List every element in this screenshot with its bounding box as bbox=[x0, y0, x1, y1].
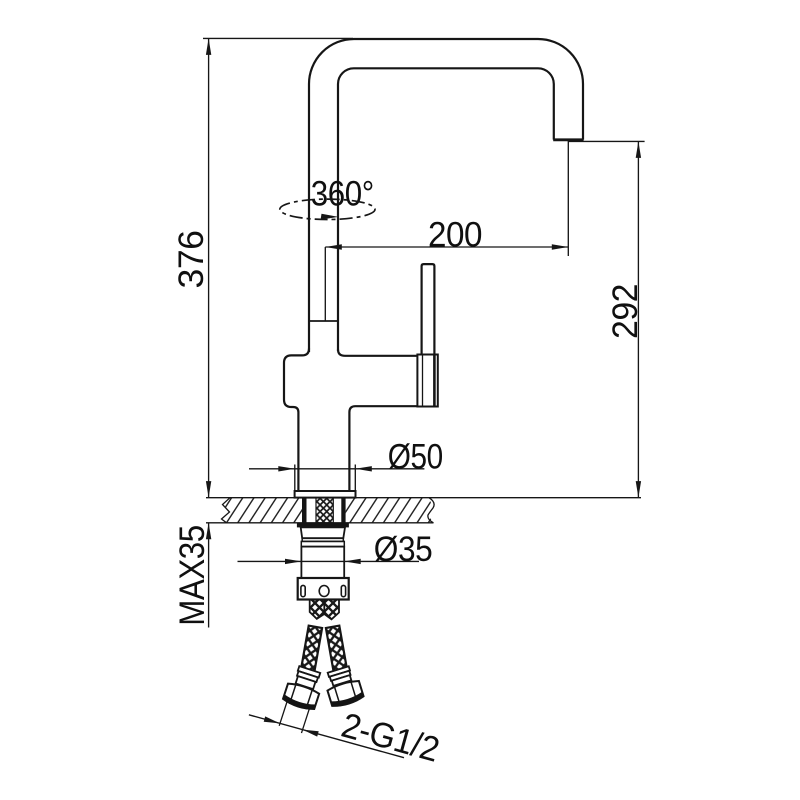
dimension 376 arrow down bbox=[206, 481, 211, 498]
right hose fitting bbox=[323, 665, 365, 709]
body bottom edge right bbox=[349, 406, 417, 491]
countertop left break edge bbox=[222, 498, 231, 523]
dimension 2-G1/2 arrow 1 bbox=[264, 716, 280, 723]
rotation ellipse dashed bbox=[280, 199, 375, 219]
left hose fitting bbox=[275, 664, 326, 734]
dimension D50 arrow right pointing left bbox=[355, 466, 372, 471]
svg-text:2-G1/2: 2-G1/2 bbox=[337, 706, 443, 770]
handle base inner bold line bbox=[433, 355, 436, 407]
right hose bbox=[326, 626, 347, 671]
countertop bottom line bbox=[206, 522, 434, 524]
countertop hatched section left bbox=[222, 498, 303, 523]
shank ring 2 bbox=[301, 541, 344, 546]
hose bundle below nut bbox=[310, 600, 339, 620]
left hose bbox=[301, 626, 322, 671]
nut center hole bbox=[319, 586, 329, 597]
svg-text:376: 376 bbox=[172, 231, 211, 289]
dimension 200 arrow left bbox=[325, 244, 342, 249]
dimension 376 line bbox=[208, 38, 210, 497]
dimension 200 arrow right bbox=[552, 244, 569, 249]
nut right slot bbox=[341, 585, 345, 596]
countertop top line bbox=[206, 497, 641, 499]
dimension 292 line bbox=[637, 141, 639, 497]
dimension MAX35 arrow up bbox=[206, 523, 211, 540]
rubber washer under counter bbox=[297, 523, 349, 528]
body top edge right bbox=[338, 350, 417, 356]
dimension D35 line bbox=[238, 560, 420, 562]
handle base block bbox=[417, 355, 437, 407]
mounting nut block bbox=[298, 578, 349, 600]
rotation arrow on ellipse bbox=[321, 214, 339, 220]
handle base inner thin line bbox=[422, 355, 424, 407]
svg-text:292: 292 bbox=[606, 284, 645, 339]
counter hole right bold edge bbox=[341, 498, 345, 523]
counter hole left bold edge bbox=[302, 498, 307, 523]
hose bundle center line bbox=[323, 600, 325, 616]
dimension 292 extension top bbox=[568, 140, 645, 142]
svg-text:Ø50: Ø50 bbox=[388, 437, 443, 476]
shank taper segment bbox=[301, 527, 345, 538]
dimension D35 arrow left pointing right bbox=[285, 559, 302, 564]
dimension 376 arrow up bbox=[206, 38, 211, 55]
spout inner contour bbox=[338, 68, 554, 351]
dimension D35 arrow right pointing left bbox=[344, 559, 361, 564]
G1/2 stub extension lines bbox=[279, 700, 310, 733]
svg-text:MAX35: MAX35 bbox=[173, 525, 212, 626]
dimension 2-G1/2 arrow 2 bbox=[303, 730, 319, 737]
countertop hatched section right bbox=[346, 498, 434, 523]
dimension D50 extension left bbox=[294, 465, 296, 491]
handle lever bbox=[422, 264, 435, 355]
dimension 200 extension left bbox=[324, 247, 326, 321]
dimension 292 arrow down bbox=[636, 481, 641, 498]
spout outer contour bbox=[309, 39, 583, 352]
body left contour bbox=[284, 349, 309, 492]
countertop right break edge bbox=[428, 498, 434, 523]
dimension 200 line bbox=[325, 246, 568, 248]
svg-text:360°: 360° bbox=[311, 175, 374, 214]
dimension D50 extension right bbox=[354, 465, 356, 491]
spout swivel joint line bbox=[309, 320, 338, 322]
shank ring 1 bbox=[302, 538, 343, 541]
svg-text:200: 200 bbox=[428, 216, 482, 255]
dimension D50 arrow left pointing right bbox=[278, 466, 295, 471]
dimension 200 extension right bbox=[567, 141, 569, 257]
dimension MAX35 line bbox=[208, 523, 210, 628]
dimension 292 arrow up bbox=[636, 141, 641, 158]
dimension D50 line bbox=[249, 468, 424, 470]
svg-text:Ø35: Ø35 bbox=[374, 530, 433, 569]
dimension 376 extension line top bbox=[203, 37, 353, 39]
spout tip face bbox=[553, 138, 583, 141]
mounting flange bbox=[295, 491, 356, 498]
shank cylinder bbox=[301, 547, 344, 578]
threaded shank braid in hole bbox=[316, 498, 333, 523]
dimension 2-G1/2 leader line bbox=[249, 715, 404, 758]
nut left slot bbox=[301, 585, 305, 596]
